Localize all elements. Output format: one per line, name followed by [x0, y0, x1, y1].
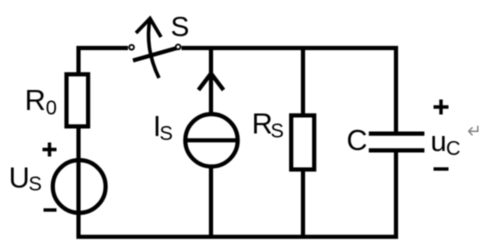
- svg-text:S: S: [171, 11, 190, 42]
- svg-text:0: 0: [46, 98, 57, 120]
- svg-text:R: R: [25, 85, 46, 117]
- svg-text:S: S: [271, 121, 284, 143]
- svg-text:C: C: [446, 138, 460, 160]
- svg-text:S: S: [29, 174, 42, 196]
- svg-text:C: C: [347, 125, 368, 157]
- svg-text:u: u: [431, 126, 447, 158]
- svg-text:S: S: [160, 123, 173, 145]
- svg-text:U: U: [9, 163, 30, 195]
